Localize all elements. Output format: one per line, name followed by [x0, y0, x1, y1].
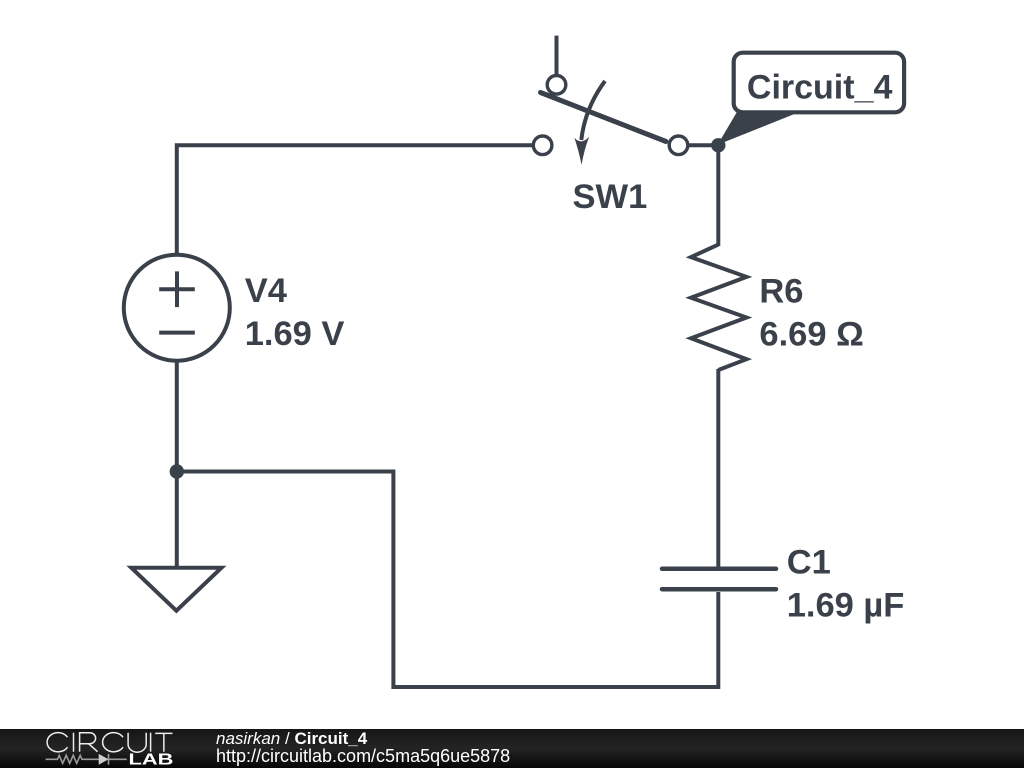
resistor R6 [691, 245, 747, 370]
label C1 value [787, 544, 905, 625]
svg-text:LAB: LAB [129, 752, 174, 768]
wire: top node down to resistor R6 [716, 145, 720, 246]
ground node junction dot [170, 464, 184, 478]
svg-text:1.69 µF: 1.69 µF [787, 587, 905, 625]
switch SW1 right terminal [669, 136, 688, 155]
svg-text:6.69 Ω: 6.69 Ω [759, 316, 863, 354]
callout box Circuit_4 [718, 53, 905, 145]
svg-text:http://circuitlab.com/c5ma5q6u: http://circuitlab.com/c5ma5q6ue5878 [216, 746, 510, 766]
node junction dot at R6 top [711, 138, 725, 152]
switch SW1 top terminal [547, 76, 566, 95]
switch SW1 arrow head [574, 137, 589, 165]
footer bar [0, 729, 1024, 768]
switch SW1 action arrow arc [581, 81, 605, 140]
label V4 value [245, 272, 345, 353]
wire: bottom net from ground node to capacitor bottom [177, 472, 719, 688]
voltage source V4 [124, 255, 230, 361]
svg-text:Circuit_4: Circuit_4 [747, 68, 893, 106]
ground [131, 472, 221, 611]
label R6 value [759, 273, 863, 354]
capacitor C1 [662, 569, 776, 589]
wire: top-left L from V4 top to switch left terminal [177, 145, 532, 255]
svg-text:SW1: SW1 [573, 178, 648, 216]
svg-text:V4: V4 [245, 272, 287, 310]
CircuitLab logo wire with resistor and diode [46, 754, 127, 765]
switch SW1 left terminal [533, 136, 552, 155]
wire: resistor R6 to capacitor C1 top plate [716, 369, 720, 567]
wire: switch right terminal to top node [678, 143, 718, 147]
CircuitLab logo diode triangle [99, 754, 109, 765]
CircuitLab logo CIRCUIT word [47, 733, 172, 753]
switch SW1 lever [541, 93, 667, 142]
wire: V4 bottom to ground node [175, 360, 179, 472]
svg-text:R6: R6 [759, 273, 803, 311]
switch SW1 stub wire [555, 36, 559, 76]
svg-text:1.69 V: 1.69 V [245, 315, 345, 353]
svg-text:C1: C1 [787, 544, 831, 582]
